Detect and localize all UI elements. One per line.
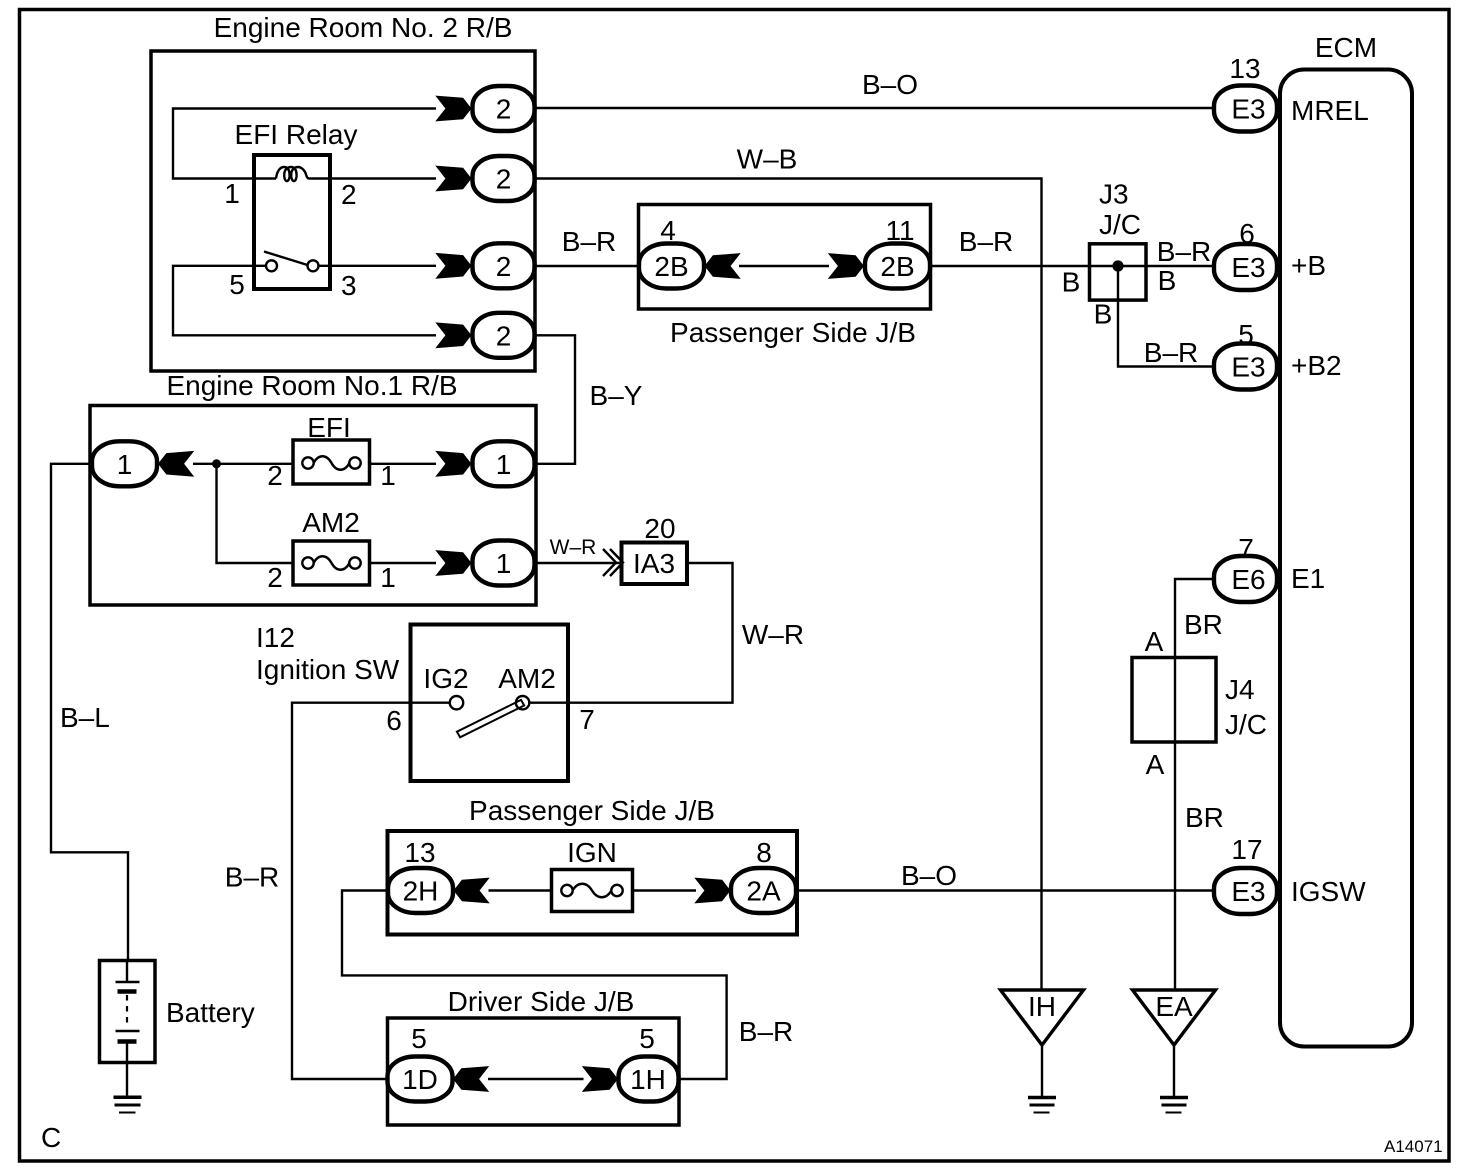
switch contact AM2 <box>516 696 529 709</box>
svg-text:BR: BR <box>1184 609 1223 640</box>
wire 2B to J3 <box>931 265 1214 267</box>
battery box <box>100 961 156 1063</box>
svg-text:1: 1 <box>380 562 396 593</box>
arrow out of oval 1 (left-pointing) <box>158 451 194 477</box>
wire pin5 down to row4 oval <box>173 266 436 336</box>
svg-text:EA: EA <box>1155 991 1193 1022</box>
svg-text:B–O: B–O <box>901 860 957 891</box>
svg-text:IA3: IA3 <box>633 548 675 579</box>
svg-text:I12: I12 <box>256 622 295 653</box>
svg-text:3: 3 <box>341 270 357 301</box>
arrow into row1 oval 2 <box>435 96 471 122</box>
fuse IGN box <box>552 870 633 912</box>
battery internals <box>116 961 140 1063</box>
svg-text:B–R: B–R <box>562 226 616 257</box>
svg-text:B–R: B–R <box>739 1016 793 1047</box>
svg-text:13: 13 <box>1229 53 1260 84</box>
oval 2 row1 <box>473 86 535 131</box>
ground IH <box>1028 1098 1056 1113</box>
svg-text:IGSW: IGSW <box>1291 876 1366 907</box>
oval E6 E1 <box>1214 556 1277 602</box>
svg-text:B–R: B–R <box>1144 337 1198 368</box>
wire from junction down to AM2 fuse <box>217 464 294 563</box>
chevron 1 <box>603 549 616 576</box>
oval 1D <box>388 1057 453 1102</box>
svg-text:A14071: A14071 <box>1384 1137 1443 1156</box>
svg-text:1: 1 <box>224 178 240 209</box>
svg-text:Engine Room No. 2 R/B: Engine Room No. 2 R/B <box>214 12 513 43</box>
svg-text:2: 2 <box>496 164 512 195</box>
wire J3 down to +B2 <box>1118 266 1213 367</box>
svg-text:W–B: W–B <box>737 144 798 175</box>
wire 2A to ECM IGSW <box>797 889 1213 891</box>
wire AM2 fuse to arrow <box>370 562 437 564</box>
svg-text:20: 20 <box>644 513 675 544</box>
junction J4 J/C box <box>1132 658 1216 743</box>
svg-text:B: B <box>1062 267 1081 298</box>
oval E3 +B2 <box>1214 344 1277 390</box>
svg-text:2: 2 <box>267 460 283 491</box>
svg-text:A: A <box>1145 626 1164 657</box>
ECM box <box>1280 70 1412 1047</box>
wire IGN fuse to arrow <box>633 889 697 891</box>
svg-text:E3: E3 <box>1231 252 1265 283</box>
wire E6 to EA through J4 <box>1175 579 1213 990</box>
oval 2 row3 <box>473 243 535 288</box>
wire IA3 to ignition switch AM2 <box>530 563 733 703</box>
svg-text:1H: 1H <box>630 1064 666 1095</box>
svg-text:A: A <box>1146 749 1165 780</box>
arrow out of 2H (left-pointing) <box>454 878 490 904</box>
oval 2 row2 <box>473 156 535 201</box>
wire IG2 to driver side J/B <box>292 703 450 1079</box>
junction J3 J/C box <box>1090 244 1147 300</box>
ground EA <box>1160 1098 1188 1113</box>
wire fuse to arrow <box>370 463 437 465</box>
svg-text:E6: E6 <box>1231 564 1265 595</box>
box: Engine Room No. 2 R/B <box>151 51 535 371</box>
svg-text:2: 2 <box>496 251 512 282</box>
svg-text:1: 1 <box>117 449 133 480</box>
svg-text:AM2: AM2 <box>498 663 556 694</box>
arrow into row3 oval 2 <box>435 253 471 279</box>
svg-text:J3: J3 <box>1099 179 1129 210</box>
svg-text:2A: 2A <box>746 876 781 907</box>
svg-text:MREL: MREL <box>1291 95 1369 126</box>
svg-text:+B2: +B2 <box>1291 350 1342 381</box>
svg-text:B–L: B–L <box>60 702 110 733</box>
wire pin1 to vertical riser to row1 <box>173 109 436 179</box>
oval 1H <box>619 1057 679 1102</box>
oval E3 MREL <box>1214 86 1277 132</box>
arrow out of 1D (left-pointing) <box>453 1066 489 1092</box>
svg-text:+B: +B <box>1291 250 1326 281</box>
oval E3 IGSW <box>1214 868 1277 914</box>
svg-text:Battery: Battery <box>166 997 255 1028</box>
wire pin2 to row2 oval <box>330 177 436 179</box>
svg-text:BR: BR <box>1185 802 1224 833</box>
fuse IGN symbol <box>561 884 622 898</box>
arrow into oval 1 AM2 row <box>435 550 471 576</box>
arrow into 2B right <box>828 253 864 279</box>
arrow out of 2B left (left-pointing) <box>705 253 741 279</box>
svg-text:IH: IH <box>1028 991 1056 1022</box>
svg-text:2B: 2B <box>654 251 688 282</box>
arrow into row4 oval 2 <box>435 322 471 348</box>
box: Passenger Side J/B (lower) <box>388 831 798 935</box>
switch I12 Ignition SW box <box>411 625 569 782</box>
svg-text:2: 2 <box>496 320 512 351</box>
svg-text:B–R: B–R <box>225 862 279 893</box>
svg-text:EFI: EFI <box>307 412 351 443</box>
oval 1 right EFI row <box>473 441 535 486</box>
relay switch lever <box>264 252 308 266</box>
svg-text:E3: E3 <box>1231 352 1265 383</box>
box: Passenger Side J/B (upper) <box>639 205 931 310</box>
svg-text:2H: 2H <box>403 876 439 907</box>
switch contact IG2 <box>450 696 463 709</box>
arrow into oval 1 right <box>435 451 471 477</box>
svg-text:Ignition SW: Ignition SW <box>256 654 400 685</box>
svg-text:B–O: B–O <box>862 69 918 100</box>
svg-text:2: 2 <box>496 94 512 125</box>
svg-text:B–R: B–R <box>1157 236 1211 267</box>
svg-text:8: 8 <box>756 837 772 868</box>
svg-text:B: B <box>1158 265 1177 296</box>
svg-text:AM2: AM2 <box>302 507 360 538</box>
oval 1 left <box>92 441 157 486</box>
fuse AM2 symbol <box>302 556 360 570</box>
box: Driver Side J/B <box>388 1018 680 1125</box>
fuse EFI box <box>293 440 370 484</box>
wire row3 to 2B <box>535 265 640 267</box>
relay coil (pins 1-2) <box>254 167 330 181</box>
svg-text:17: 17 <box>1231 834 1262 865</box>
arrow into 1H <box>582 1066 618 1092</box>
oval 2 row4 <box>473 313 535 358</box>
svg-text:2: 2 <box>267 562 283 593</box>
wire IH to ground <box>1041 1045 1043 1096</box>
svg-text:2: 2 <box>341 179 357 210</box>
svg-text:E1: E1 <box>1291 563 1325 594</box>
junction dot <box>212 459 221 468</box>
svg-text:J4: J4 <box>1225 674 1255 705</box>
relay switch contacts <box>254 265 266 267</box>
svg-text:B–R: B–R <box>959 226 1013 257</box>
wire W-R to IA3 <box>535 562 622 564</box>
arrow into 2A <box>694 878 730 904</box>
wire row4 to EFI output riser B-Y <box>535 335 576 464</box>
oval 2B left <box>639 244 704 289</box>
svg-text:1: 1 <box>496 548 512 579</box>
svg-text:W–R: W–R <box>742 619 804 650</box>
svg-text:B: B <box>1094 299 1113 330</box>
svg-text:Passenger Side J/B: Passenger Side J/B <box>670 317 916 348</box>
svg-text:W–R: W–R <box>550 536 597 559</box>
connector IA3 box <box>622 543 688 585</box>
svg-text:EFI Relay: EFI Relay <box>235 119 358 150</box>
svg-text:IG2: IG2 <box>423 663 468 694</box>
svg-text:Passenger Side J/B: Passenger Side J/B <box>469 795 715 826</box>
svg-text:E3: E3 <box>1231 94 1265 125</box>
wire pin3 to row3 oval <box>319 265 437 267</box>
box: Engine Room No.1 R/B <box>90 406 536 606</box>
svg-text:6: 6 <box>386 705 402 736</box>
wire battery to ground <box>126 1063 128 1097</box>
relay K1 EFI Relay box <box>254 155 330 289</box>
svg-text:13: 13 <box>404 837 435 868</box>
triangle IH <box>1001 990 1084 1045</box>
wire to EFI fuse <box>193 463 293 465</box>
fuse EFI symbol <box>302 456 360 470</box>
svg-text:IGN: IGN <box>567 837 617 868</box>
svg-text:Driver Side J/B: Driver Side J/B <box>448 986 635 1017</box>
wire EA to ground <box>1173 1045 1175 1096</box>
svg-text:1D: 1D <box>402 1064 438 1095</box>
oval 2H <box>388 868 453 913</box>
svg-text:ECM: ECM <box>1315 32 1377 63</box>
oval 2A <box>731 868 796 913</box>
svg-text:J/C: J/C <box>1225 709 1267 740</box>
svg-text:5: 5 <box>411 1023 427 1054</box>
wire from oval 1 left to battery <box>51 464 128 961</box>
svg-text:J/C: J/C <box>1099 209 1141 240</box>
wire 2H branch to driver side J/B <box>342 891 727 1080</box>
svg-text:Engine Room No.1 R/B: Engine Room No.1 R/B <box>166 370 457 401</box>
arrow into row2 oval 2 <box>435 166 471 192</box>
svg-text:B–Y: B–Y <box>590 380 643 411</box>
oval 2B right <box>865 244 930 289</box>
svg-text:2B: 2B <box>880 251 914 282</box>
wire 2H arrow to IGN fuse <box>489 889 552 891</box>
chevron 2 <box>610 549 623 576</box>
wire 1D to 1H <box>488 1078 584 1080</box>
wire between 2B ovals <box>739 265 829 267</box>
svg-text:5: 5 <box>229 269 245 300</box>
ground battery <box>114 1097 142 1112</box>
svg-text:7: 7 <box>579 704 595 735</box>
oval 1 AM2 row <box>473 541 535 586</box>
svg-text:E3: E3 <box>1231 876 1265 907</box>
switch lever <box>457 700 524 737</box>
wire row2 W-B down to IH <box>535 179 1042 991</box>
svg-text:1: 1 <box>496 449 512 480</box>
triangle EA <box>1133 990 1216 1045</box>
wire row1 B-O to ECM MREL <box>535 107 1214 109</box>
node dot in J3 <box>1112 260 1123 271</box>
oval E3 +B <box>1214 244 1277 290</box>
fuse AM2 box <box>293 541 370 585</box>
svg-text:C: C <box>41 1122 61 1153</box>
svg-text:5: 5 <box>639 1023 655 1054</box>
